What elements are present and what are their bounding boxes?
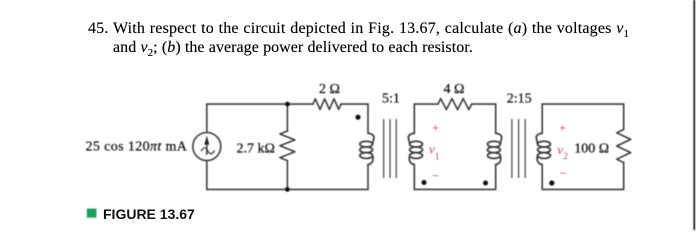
svg-text:5:1: 5:1 <box>382 92 400 107</box>
svg-text:+: + <box>432 121 439 135</box>
current source I1 circle <box>193 133 221 161</box>
polarity dot, 5:1 primary <box>355 115 360 120</box>
polarity dot, loop3 <box>549 180 554 185</box>
transformer T2 core lines (2:15) <box>512 119 525 178</box>
wire loop3 right upper <box>623 104 625 129</box>
inductor coil L3 (2:15 primary) <box>488 133 502 164</box>
resistor R 2ohm zigzag <box>313 99 341 110</box>
wire loop3 left upper <box>541 104 543 133</box>
wire loop2 left lower <box>413 165 415 190</box>
svg-text:2:15: 2:15 <box>507 92 532 107</box>
resistor R 4ohm zigzag <box>438 99 472 110</box>
svg-text:25 cos 120πt mA: 25 cos 120πt mA <box>86 139 188 154</box>
figure caption green square <box>87 209 97 218</box>
wire loop1 top-left segment <box>207 103 313 105</box>
wire middle branch upper <box>286 104 288 131</box>
wire loop2 bottom <box>414 188 495 190</box>
inductor coil L4 (2:15 secondary) <box>536 133 550 164</box>
wire loop1 right upper <box>367 104 369 133</box>
polarity dot, loop2 left <box>422 180 427 185</box>
wire loop3 bottom <box>542 188 624 190</box>
resistor R 100ohm zigzag <box>617 130 631 163</box>
wire loop1 left lower <box>206 161 208 190</box>
wire loop2 right upper <box>495 104 497 133</box>
wire loop2 top-left segment <box>414 103 438 105</box>
svg-text:4 Ω: 4 Ω <box>444 82 465 97</box>
svg-text:2 Ω: 2 Ω <box>319 82 340 97</box>
problem statement line 2 <box>113 40 473 59</box>
svg-text:2.7 kΩ: 2.7 kΩ <box>237 141 275 156</box>
junction node bottom (2.7k branch) <box>285 187 290 192</box>
svg-text:−: − <box>432 168 439 183</box>
svg-text:−: − <box>559 166 566 181</box>
current source I1 arrow <box>201 137 214 155</box>
svg-text:v2: v2 <box>557 142 568 162</box>
wire loop2 right lower <box>495 165 497 190</box>
inductor coil L2 (5:1 secondary) <box>408 133 422 164</box>
svg-text:+: + <box>559 121 566 135</box>
inductor coil L1 (5:1 primary) <box>360 133 374 164</box>
wire loop3 right lower <box>623 163 625 190</box>
wire loop1 top-right segment <box>341 103 368 105</box>
wire loop2 top-right segment <box>472 103 496 105</box>
problem statement line 1 <box>88 21 629 40</box>
wire middle branch lower <box>286 161 288 190</box>
polarity dot, loop2 right <box>483 181 488 186</box>
wire loop1 left upper <box>206 104 208 132</box>
junction node top (2.7k branch) <box>285 102 290 107</box>
wire loop1 right lower <box>367 165 369 190</box>
svg-text:100 Ω: 100 Ω <box>574 142 609 157</box>
wire loop3 left lower <box>541 165 543 190</box>
wire loop3 top <box>542 103 624 105</box>
wire loop2 left upper <box>413 104 415 133</box>
resistor R 2.7k zigzag <box>280 131 295 161</box>
svg-text:v1: v1 <box>429 142 440 163</box>
figure caption text <box>103 206 195 222</box>
page column rule <box>693 0 695 230</box>
wire loop1 bottom <box>207 188 368 190</box>
transformer T1 core lines (5:1) <box>384 119 397 178</box>
